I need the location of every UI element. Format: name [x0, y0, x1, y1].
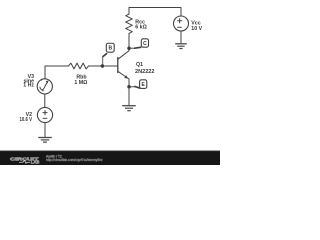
svg-text:LAB: LAB	[31, 160, 40, 165]
svg-text:6 kΩ: 6 kΩ	[135, 24, 147, 30]
svg-text:10 V: 10 V	[191, 26, 202, 32]
svg-text:2N2222: 2N2222	[135, 69, 155, 75]
svg-text:1 Hz: 1 Hz	[23, 83, 34, 89]
svg-text:B: B	[108, 46, 112, 52]
svg-text:C: C	[143, 41, 147, 47]
svg-text:10.6 V: 10.6 V	[20, 117, 33, 123]
svg-text:http://circuitlab.com/cqv/91s/: http://circuitlab.com/cqv/91s/iammyl8rz	[46, 158, 103, 162]
svg-text:Q1: Q1	[136, 62, 143, 68]
svg-text:Rbb: Rbb	[76, 75, 86, 81]
svg-text:1 MΩ: 1 MΩ	[74, 80, 87, 86]
